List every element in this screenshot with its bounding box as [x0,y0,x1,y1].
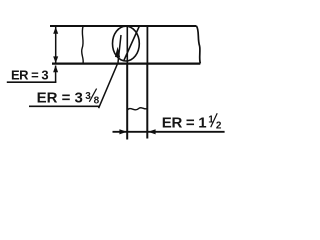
member left edge below plate [126,64,128,140]
svg-text:ER = 1: ER = 1 [162,115,206,132]
fraction slash [89,89,96,102]
svg-text:1: 1 [208,115,214,126]
bottom dimension line ER = 1 1/2 [113,131,225,133]
dim ER=3 down arrowhead at plate bottom [53,56,58,63]
member left edge through plate [126,27,128,64]
leader ER=3 up arrowhead below plate [53,65,58,72]
dim ER=3 up arrowhead at top [53,27,58,34]
weld zone circle [113,26,140,61]
plate left break squiggle [82,27,84,64]
svg-text:8: 8 [94,96,100,107]
dim ER=3 vertical line [55,27,57,82]
ER = 3 underline [7,81,57,83]
svg-text:ER = 3: ER = 3 [11,68,48,83]
member right edge below plate [146,64,148,139]
svg-text:2: 2 [216,120,222,131]
leader arrowhead [115,47,120,58]
ER = 3 3/8 underline [29,105,100,107]
bottom dim left-pointing arrowhead [148,129,156,134]
leader line ER = 3 3/8 [99,35,121,108]
plate bottom edge [52,62,200,64]
member right edge through plate [146,27,148,64]
diagonal inside circle [124,26,139,60]
plate right break edge [197,26,201,64]
plate top edge [50,25,197,27]
bottom dim right-pointing arrowhead [119,129,127,134]
member break squiggle [127,108,147,111]
svg-text:ER = 3: ER = 3 [37,89,83,106]
fraction slash [211,113,218,127]
